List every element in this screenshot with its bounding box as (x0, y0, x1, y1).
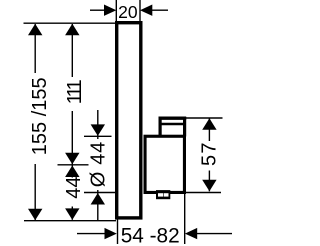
svg-text:155 /155: 155 /155 (29, 77, 51, 155)
svg-text:44: 44 (63, 176, 85, 198)
svg-text:111: 111 (64, 79, 86, 104)
svg-text:Ø 44: Ø 44 (87, 142, 109, 187)
svg-text:57: 57 (198, 142, 220, 166)
svg-text:20: 20 (118, 2, 138, 22)
svg-text:54 -82: 54 -82 (121, 225, 180, 246)
